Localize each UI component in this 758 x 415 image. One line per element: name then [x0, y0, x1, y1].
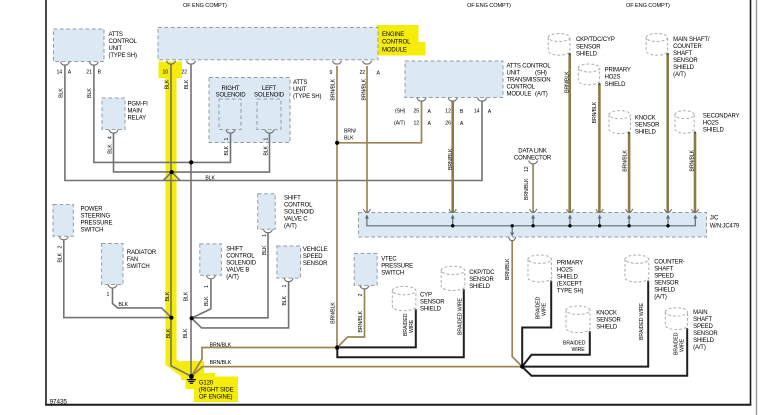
svg-text:WIRE: WIRE: [680, 338, 686, 352]
svg-text:HO2S: HO2S: [605, 75, 621, 81]
svg-text:CONTROL: CONTROL: [507, 85, 536, 91]
svg-text:G120: G120: [199, 380, 214, 386]
wire BRN/BLK: main/counter shaft sensor shield drain to J/C: [666, 54, 669, 213]
wire BRN/BLK: primary HO2S shield drain to J/C: [598, 84, 601, 213]
PGM-FI main relay box: [102, 98, 125, 130]
svg-text:SOLENOID: SOLENOID: [216, 93, 247, 99]
svg-text:BRN/BLK: BRN/BLK: [592, 101, 598, 123]
wire BLK: power steering pressure switch pin 2 to node J2: [64, 240, 172, 317]
svg-text:FAN: FAN: [127, 257, 138, 263]
J/C entry cups: [363, 209, 370, 212]
node: bus A / ECM22 wire junction: [189, 160, 193, 164]
svg-text:21: 21: [86, 70, 92, 76]
svg-text:BLK: BLK: [166, 328, 172, 338]
svg-text:KNOCK: KNOCK: [596, 311, 617, 317]
node J1: ECM10 wire / bus B junction: [170, 170, 174, 174]
engine control module ECM box: [158, 28, 378, 60]
svg-text:SHAFT: SHAFT: [693, 317, 712, 323]
wire BLK: vehicle speed sensor pin 1 to node J3: [192, 282, 289, 328]
wires layer: [64, 54, 696, 376]
svg-text:25: 25: [414, 109, 420, 115]
svg-text:SWITCH: SWITCH: [381, 271, 404, 277]
wire BRN/BLK: ECM pin 22A down to J/C: [366, 66, 368, 213]
wire braided: CYP sensor shield to node A: [340, 310, 416, 347]
pin 14 connector: [60, 62, 69, 65]
svg-text:BLK: BLK: [165, 79, 171, 89]
svg-text:UNIT: UNIT: [293, 87, 307, 93]
svg-text:TRANSMISSION: TRANSMISSION: [507, 78, 551, 84]
power steering switch pin 2 connector: [59, 237, 68, 240]
wire braided: primary HO2S shield (except SH) to node B: [522, 282, 551, 367]
ATTS/TCM pin 14 connector: [478, 98, 487, 101]
svg-text:UNIT: UNIT: [109, 46, 123, 52]
svg-text:VEHICLE: VEHICLE: [303, 247, 328, 253]
svg-text:BLK: BLK: [184, 79, 190, 89]
svg-text:MODULE: MODULE: [382, 47, 407, 53]
svg-text:SENSOR: SENSOR: [673, 58, 698, 64]
svg-text:CONTROL: CONTROL: [109, 39, 138, 45]
svg-text:SPEED: SPEED: [303, 254, 323, 260]
radiator fan switch box: [102, 244, 123, 285]
svg-text:WIRE: WIRE: [542, 302, 548, 316]
wire BRN/BLK: CKP/TDC/CYP sensor shield drain to J/C: [568, 54, 571, 213]
wire BLK: node J1 to left solenoid pin 1: [172, 133, 270, 172]
svg-text:BLK: BLK: [184, 291, 190, 301]
svg-text:ATTS: ATTS: [293, 80, 307, 86]
left solenoid box: [257, 99, 281, 130]
svg-text:CKP/TDC/CYP: CKP/TDC/CYP: [576, 37, 615, 43]
border right: [750, 0, 752, 406]
boxes layer: [53, 28, 707, 286]
wire BLK: ECM pin 10 (highlighted) down to ground G120: [171, 65, 191, 377]
radiator fan switch pin 1 connector: [108, 285, 117, 288]
ECM pin 22 connector: [187, 61, 196, 64]
svg-text:PGM-FI: PGM-FI: [128, 102, 149, 108]
ATTS/TCM pin 25 connector: [417, 98, 426, 101]
J/C internal bus: [367, 216, 695, 235]
svg-text:BLK: BLK: [205, 176, 215, 182]
svg-text:SENSOR: SENSOR: [693, 331, 718, 337]
ATTS control unit (TYPE SH) box: [54, 29, 105, 62]
svg-text:1: 1: [263, 138, 269, 141]
svg-text:CONNECTOR: CONNECTOR: [514, 156, 552, 162]
shield wire attach ticks: [415, 53, 696, 333]
svg-text:STEERING: STEERING: [81, 214, 111, 220]
svg-text:LEFT: LEFT: [262, 86, 277, 92]
svg-text:BRN/BLK: BRN/BLK: [622, 149, 628, 171]
svg-text:COUNTER: COUNTER: [673, 44, 702, 50]
svg-text:SHAFT: SHAFT: [654, 267, 673, 273]
highlight: ground blob + G120 label: [194, 377, 238, 403]
highlight: ECM pin 10 / wire to G120: [159, 62, 183, 79]
svg-text:MAIN SHAFT/: MAIN SHAFT/: [673, 37, 710, 43]
svg-text:12: 12: [414, 121, 420, 127]
wire BLK: shift control solenoid valve C pin 1 to node J3: [192, 233, 268, 318]
svg-text:SHIFT: SHIFT: [284, 196, 301, 202]
svg-text:KNOCK: KNOCK: [635, 116, 656, 122]
svg-text:1: 1: [262, 234, 268, 237]
counter-shaft speed sensor shield symbol: [625, 255, 649, 282]
svg-text:HO2S: HO2S: [703, 121, 719, 127]
node A: [335, 345, 339, 349]
svg-text:BLK: BLK: [282, 295, 288, 305]
ATTS control unit (SH) / transmission control module (A/T) box: [405, 61, 503, 98]
svg-text:1: 1: [204, 285, 210, 288]
svg-text:SHIELD: SHIELD: [693, 338, 715, 344]
wire BLK: shift control solenoid valve B pin 1 to node J3: [192, 279, 211, 318]
svg-text:12: 12: [524, 166, 530, 172]
wire BRN/BLK: J/C output to node B: [512, 241, 522, 367]
svg-text:OF ENG COMPT): OF ENG COMPT): [467, 3, 511, 9]
svg-text:1: 1: [224, 138, 230, 141]
svg-text:BRN/BLK: BRN/BLK: [690, 149, 696, 171]
svg-text:HO2S: HO2S: [557, 268, 573, 274]
svg-text:BRN/BLK: BRN/BLK: [564, 71, 570, 93]
svg-text:SENSOR: SENSOR: [596, 318, 621, 324]
right solenoid box: [219, 99, 241, 130]
svg-text:BRN/BLK: BRN/BLK: [210, 360, 232, 366]
shift control solenoid valve B box: [200, 244, 222, 275]
wire BRN/BLK: node A to ground G120: [192, 348, 338, 377]
svg-text:14: 14: [474, 109, 480, 115]
svg-text:UNIT: UNIT: [507, 71, 521, 77]
wire braided: CKP/TDC sensor shield to node A: [337, 290, 464, 357]
svg-text:BLK: BLK: [224, 145, 230, 155]
wire BRN/BLK: node B to ground G120: [192, 367, 523, 377]
svg-text:SENSOR: SENSOR: [469, 277, 494, 283]
svg-text:(A/T): (A/T): [535, 92, 548, 98]
ground node G120: [189, 374, 194, 379]
valve C pin 1 connector: [264, 229, 273, 232]
svg-text:SHIELD: SHIELD: [596, 325, 618, 331]
svg-text:BRN/BLK: BRN/BLK: [358, 310, 364, 332]
J/C exit arrow: [510, 233, 514, 237]
svg-text:RADIATOR: RADIATOR: [127, 250, 157, 256]
svg-text:10: 10: [163, 70, 169, 76]
svg-text:SOLENOID: SOLENOID: [254, 93, 285, 99]
left solenoid pin 1 connector: [265, 130, 274, 133]
VTEC switch pin 2 connector: [360, 286, 369, 289]
svg-text:14: 14: [57, 70, 63, 76]
shield cylinders: [392, 33, 694, 332]
VTEC pressure switch box: [354, 253, 377, 285]
svg-text:BLK: BLK: [263, 145, 269, 155]
vehicle speed sensor pin 1 connector: [284, 278, 293, 281]
PGM-FI relay pin 4 connector: [109, 130, 118, 133]
svg-text:WIRE: WIRE: [409, 319, 415, 333]
ECM pin 9 connector: [333, 61, 342, 64]
svg-text:22: 22: [182, 70, 188, 76]
highlights layer: [159, 25, 426, 402]
page edge: [756, 0, 758, 415]
svg-text:BRN/BLK: BRN/BLK: [331, 78, 337, 100]
svg-text:BLK: BLK: [108, 144, 114, 154]
svg-text:SHIELD: SHIELD: [635, 130, 657, 136]
svg-text:(A/T): (A/T): [226, 275, 239, 281]
svg-text:PRIMARY: PRIMARY: [605, 68, 631, 74]
wire BLK: ATTS(TYPE SH) pin 21 to bus A to right solenoid pin 1: [94, 66, 231, 163]
vehicle speed sensor box: [277, 246, 301, 278]
ATTS unit (TYPE SH) outer box: [209, 78, 290, 143]
svg-text:(SH): (SH): [535, 71, 547, 77]
shift control solenoid valve C box: [258, 194, 276, 230]
svg-text:CONTROL: CONTROL: [226, 254, 255, 260]
node: ECM pin9 / ATTS pin25 junction: [335, 141, 339, 145]
svg-text:4: 4: [108, 136, 114, 139]
J/C exit cup: [509, 237, 516, 240]
svg-text:SHIELD: SHIELD: [420, 307, 442, 313]
svg-text:(A/T): (A/T): [394, 121, 405, 127]
svg-text:CONTROL: CONTROL: [284, 203, 313, 209]
node J2: [169, 316, 173, 320]
border bottom: [45, 404, 751, 406]
svg-text:BRAIDED WIRE: BRAIDED WIRE: [457, 298, 463, 335]
wire BRN/BLK: secondary HO2S shield drain to J/C: [694, 133, 697, 214]
svg-text:SOLENOID: SOLENOID: [284, 210, 315, 216]
svg-text:SENSOR: SENSOR: [635, 123, 660, 129]
svg-text:POWER: POWER: [81, 207, 104, 213]
knock sensor shield symbol: [609, 111, 631, 134]
svg-text:DATA LINK: DATA LINK: [518, 149, 547, 155]
svg-text:SHIELD: SHIELD: [576, 52, 598, 58]
svg-text:9: 9: [330, 70, 333, 76]
svg-text:VALVE C: VALVE C: [284, 217, 308, 223]
svg-text:ATTS CONTROL: ATTS CONTROL: [507, 64, 552, 70]
svg-text:BRN/BLK: BRN/BLK: [331, 302, 337, 324]
valve B pin 1 connector: [206, 276, 215, 279]
svg-text:(TYPE SH): (TYPE SH): [293, 94, 321, 100]
svg-text:2: 2: [57, 246, 63, 249]
svg-text:VTEC: VTEC: [381, 257, 397, 263]
svg-text:(EXCEPT: (EXCEPT: [557, 282, 582, 288]
svg-text:BRAIDED: BRAIDED: [563, 341, 586, 347]
wire BRN/BLK: ECM pin 9 down to node A: [336, 66, 338, 348]
svg-text:(A/T): (A/T): [284, 224, 297, 230]
svg-text:MAIN: MAIN: [128, 109, 142, 115]
svg-text:SHIFT: SHIFT: [226, 247, 243, 253]
svg-text:BLK: BLK: [57, 252, 63, 262]
wire BRN/BLK: VTEC pressure switch pin 2 to node A: [337, 289, 364, 348]
svg-text:BLK: BLK: [58, 88, 64, 98]
svg-text:BRN/BLK: BRN/BLK: [505, 258, 511, 280]
svg-text:12: 12: [445, 109, 451, 115]
right solenoid pin 1 connector: [226, 130, 235, 133]
svg-text:CYP: CYP: [420, 293, 432, 299]
power steering pressure switch box: [53, 205, 73, 237]
ATTS/TCM pin 12 connector: [448, 98, 457, 101]
svg-text:SENSOR: SENSOR: [654, 281, 679, 287]
svg-text:BLK: BLK: [204, 296, 210, 306]
svg-text:SWITCH: SWITCH: [127, 264, 150, 270]
svg-text:BLK: BLK: [183, 328, 189, 338]
data link connector pin 12 connector: [529, 161, 538, 164]
svg-text:SHAFT: SHAFT: [673, 51, 692, 57]
svg-text:1: 1: [282, 285, 288, 288]
svg-text:BLK: BLK: [262, 245, 268, 255]
svg-text:(A/T): (A/T): [654, 295, 667, 301]
svg-text:ATTS: ATTS: [109, 32, 123, 38]
svg-text:(A/T): (A/T): [673, 72, 686, 78]
svg-text:PRESSURE: PRESSURE: [381, 264, 413, 270]
border left: [45, 0, 47, 406]
svg-text:SECONDARY: SECONDARY: [703, 114, 740, 120]
svg-text:SHIELD: SHIELD: [557, 275, 579, 281]
svg-text:CKP/TDC: CKP/TDC: [469, 270, 495, 276]
node B: [520, 364, 524, 368]
svg-text:BRN/BLK: BRN/BLK: [210, 342, 232, 348]
CKP/TDC sensor shield symbol: [441, 266, 465, 290]
svg-text:BRN/BLK: BRN/BLK: [524, 178, 530, 200]
wire BRN/BLK: data link connector pin 12 down to J/C: [532, 165, 534, 214]
CKP/TDC/CYP sensor shield symbol: [548, 34, 570, 56]
svg-text:SHIELD: SHIELD: [654, 288, 676, 294]
main shaft speed sensor shield symbol: [665, 308, 687, 330]
svg-text:ENGINE: ENGINE: [382, 32, 404, 38]
main shaft/counter shaft sensor shield symbol: [646, 33, 667, 55]
svg-text:SHIELD: SHIELD: [469, 284, 491, 290]
svg-text:MAIN: MAIN: [693, 310, 707, 316]
svg-text:OF ENG COMPT): OF ENG COMPT): [626, 3, 670, 9]
wire BLK: radiator fan switch pin 1 to node J2: [113, 288, 172, 317]
svg-text:SWITCH: SWITCH: [81, 228, 104, 234]
junction connector J/C box: [359, 213, 707, 238]
connector cups: [59, 61, 698, 289]
svg-text:BLK: BLK: [165, 291, 171, 301]
svg-text:BLK: BLK: [119, 302, 129, 308]
wire BLK: PGM-FI relay pin 4 to node J1: [114, 133, 172, 172]
svg-text:RIGHT: RIGHT: [222, 86, 240, 92]
svg-text:SHIELD: SHIELD: [673, 65, 695, 71]
J/C bus junction dots: [451, 224, 454, 227]
svg-text:BLK: BLK: [344, 136, 354, 142]
svg-text:SENSOR: SENSOR: [420, 300, 445, 306]
svg-text:TYPE SH): TYPE SH): [557, 289, 584, 295]
svg-text:22: 22: [360, 70, 366, 76]
svg-text:W/N:JC479: W/N:JC479: [710, 224, 740, 230]
svg-text:MODULE: MODULE: [507, 92, 532, 98]
wire braided: knock sensor shield to node B: [522, 332, 589, 366]
knock sensor shield (lower) symbol: [566, 306, 590, 333]
svg-text:1: 1: [107, 292, 110, 298]
node J3: [190, 316, 194, 320]
svg-text:(TYPE SH): (TYPE SH): [109, 53, 137, 59]
svg-text:(A/T): (A/T): [693, 345, 706, 351]
svg-text:OF ENG COMPT): OF ENG COMPT): [183, 3, 227, 9]
svg-text:VALVE B: VALVE B: [226, 268, 249, 274]
svg-text:(SH): (SH): [395, 109, 406, 115]
svg-text:SHIELD: SHIELD: [703, 128, 725, 134]
wire: diagonal links node J1 to BLK bus: [163, 172, 180, 180]
svg-text:RELAY: RELAY: [128, 116, 147, 122]
J/C entry arrows: [365, 215, 697, 237]
CYP sensor shield symbol: [392, 286, 416, 310]
svg-text:PRESSURE: PRESSURE: [81, 221, 113, 227]
svg-text:J/C: J/C: [710, 216, 719, 222]
ground symbol G120: [187, 380, 196, 384]
svg-text:SHIELD: SHIELD: [605, 82, 627, 88]
svg-text:SENSOR: SENSOR: [576, 44, 601, 50]
svg-text:WIRE: WIRE: [572, 347, 586, 353]
pin 21 connector: [89, 62, 98, 65]
ECM pin 10 connector: [167, 61, 176, 64]
secondary HO2S shield symbol: [675, 111, 694, 134]
svg-text:COUNTER-: COUNTER-: [654, 260, 685, 266]
svg-text:BRN/BLK: BRN/BLK: [362, 78, 368, 100]
svg-text:SPEED: SPEED: [693, 324, 713, 330]
svg-text:SENSOR: SENSOR: [303, 261, 328, 267]
svg-text:(RIGHT SIDE: (RIGHT SIDE: [199, 387, 234, 393]
wire braided: counter-shaft speed sensor shield to node B: [525, 282, 649, 367]
wire BLK: ECM pin 22 down to ground G120: [190, 65, 192, 377]
ECM pin 22A connector: [363, 61, 372, 64]
wire BLK: ATTS(TYPE SH) pin 14 to BLK bus to ATTS/TCM pin 14: [65, 66, 482, 181]
svg-text:2: 2: [358, 294, 364, 297]
wire BRN/BLK: knock sensor shield drain to J/C: [628, 133, 631, 213]
wire BRN/BLK: ATTS/TCM pin 12/26 down to J/C: [451, 101, 454, 213]
wire braided: main shaft speed sensor shield to node B: [522, 329, 687, 376]
symbols layer: [59, 53, 698, 383]
wire BRN/BLK: ATTS/TCM pin 25 to ECM pin 9 wire: [338, 101, 422, 143]
svg-text:BRN/BLK: BRN/BLK: [448, 148, 454, 170]
svg-text:PRIMARY: PRIMARY: [557, 261, 583, 267]
svg-text:26: 26: [445, 121, 451, 127]
svg-text:CONTROL: CONTROL: [382, 40, 411, 46]
primary HO2S shield symbol: [578, 64, 599, 85]
svg-text:BLK: BLK: [87, 88, 93, 98]
svg-text:SOLENOID: SOLENOID: [226, 261, 257, 267]
highlight: ENGINE CONTROL MODULE label: [377, 25, 419, 43]
primary HO2S shield (except type SH) symbol: [528, 255, 552, 282]
svg-text:OF ENGINE): OF ENGINE): [199, 395, 233, 401]
svg-text:BRN/: BRN/: [344, 129, 357, 135]
svg-text:SPEED: SPEED: [654, 274, 674, 280]
svg-text:BRAIDED WIRE: BRAIDED WIRE: [639, 303, 645, 340]
